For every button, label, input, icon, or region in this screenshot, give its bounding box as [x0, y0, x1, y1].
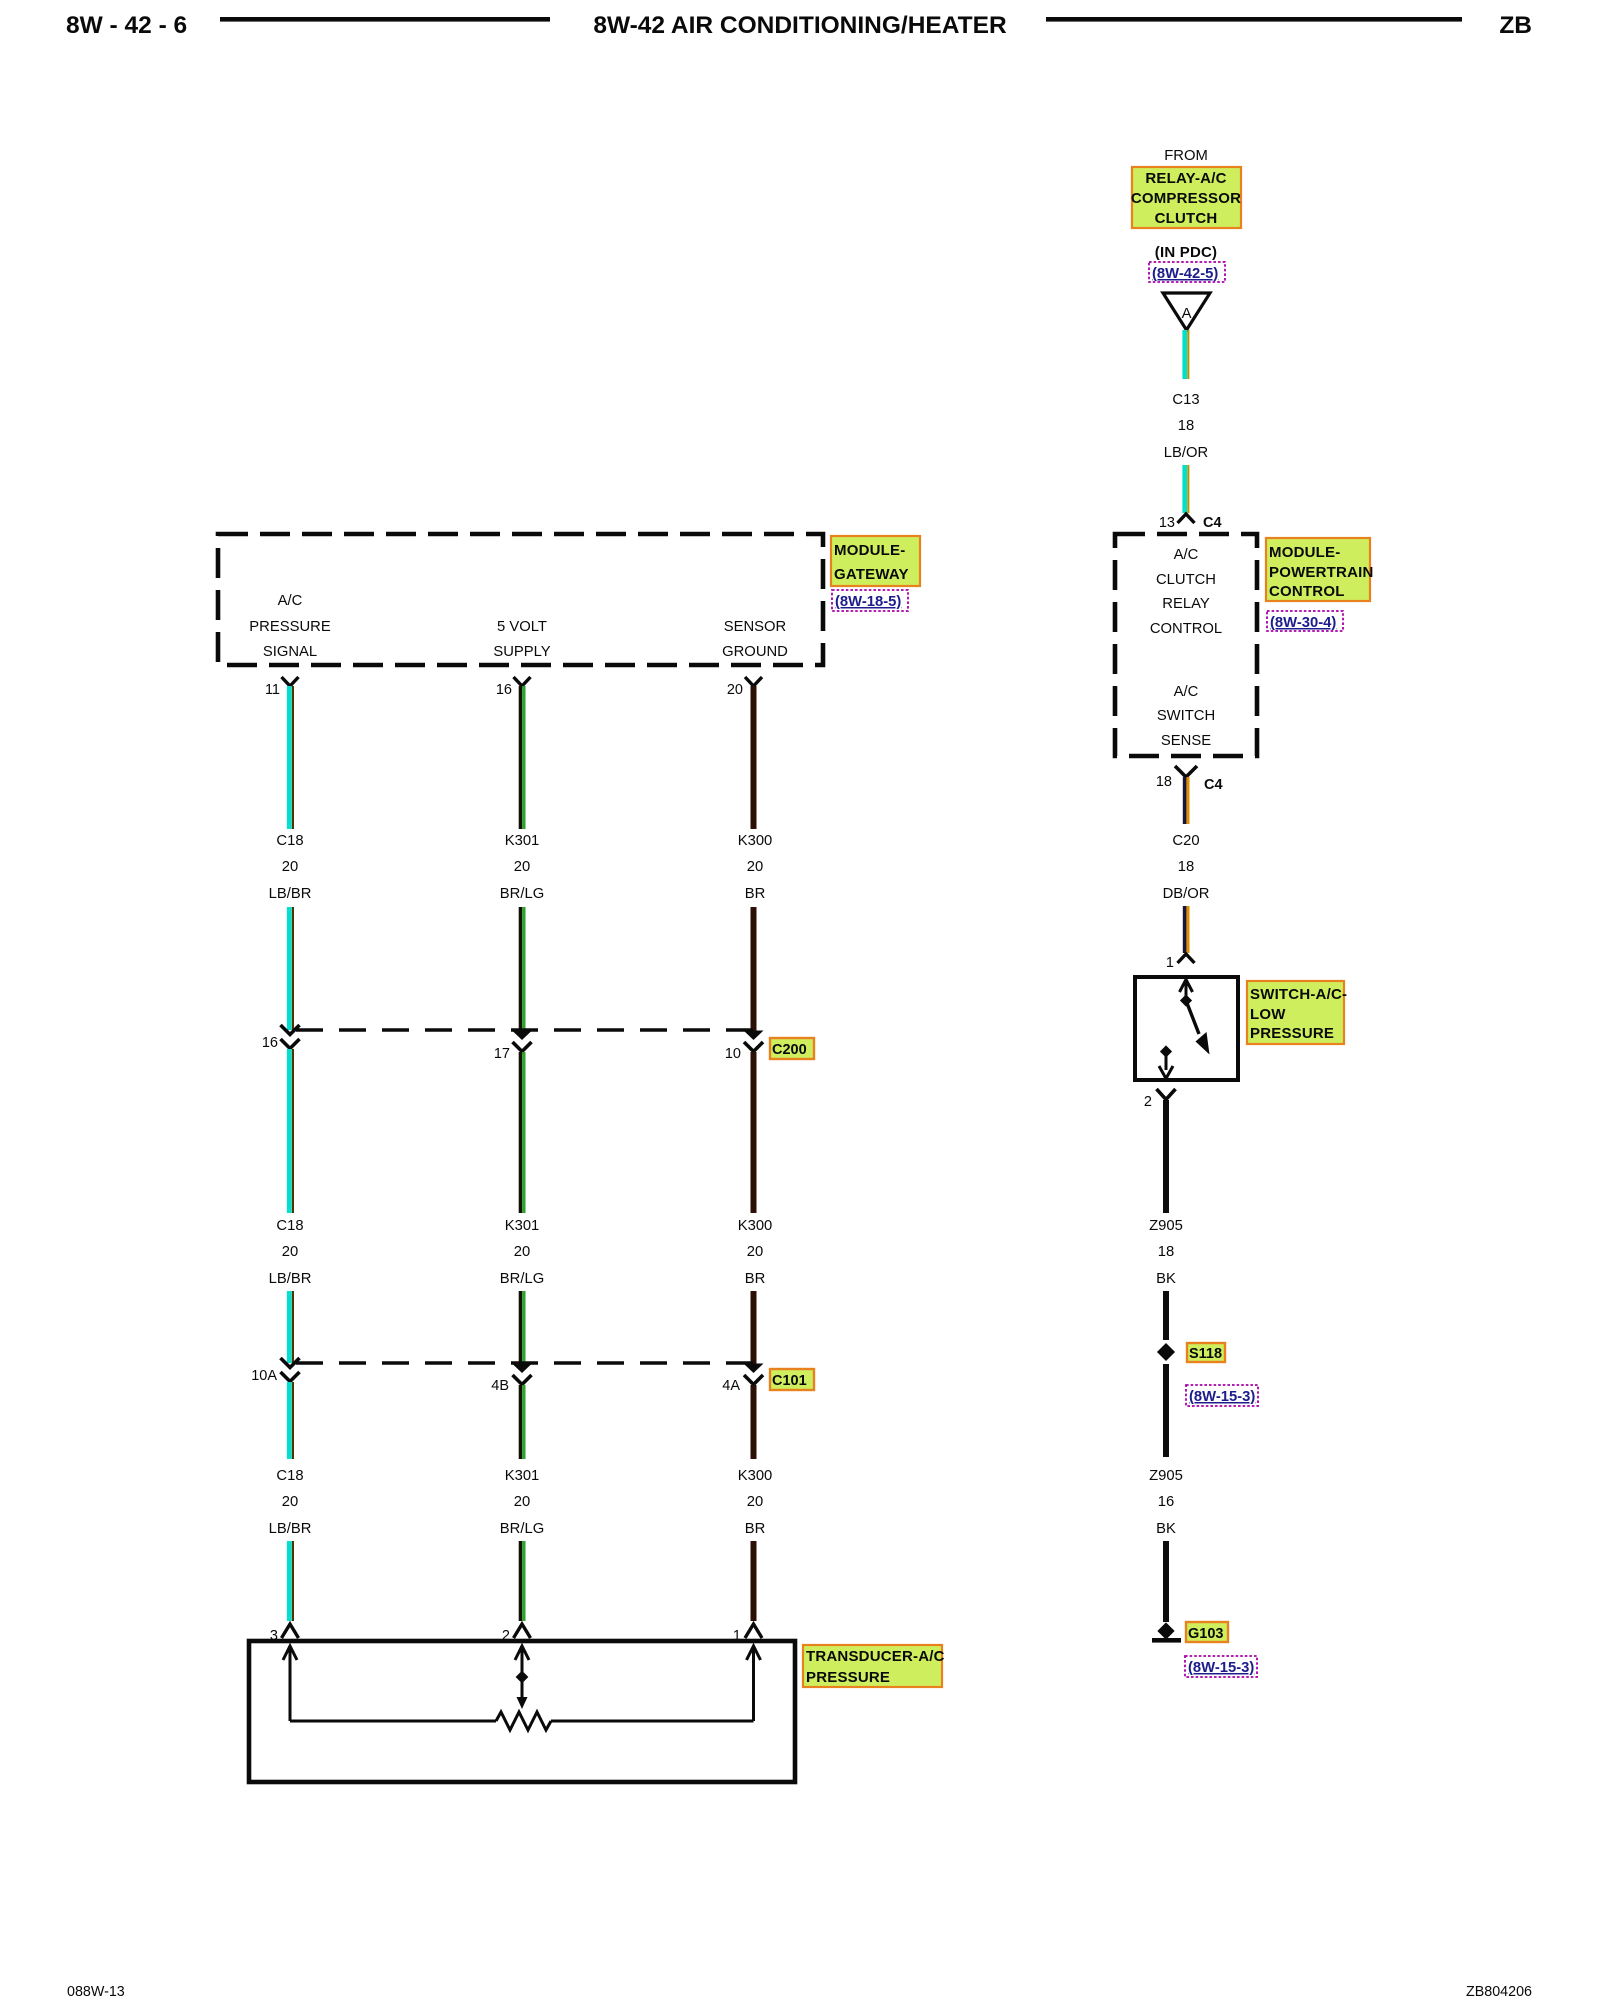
svg-text:A/C: A/C	[278, 593, 303, 609]
wire K300 20 BR segment 1	[738, 686, 773, 902]
wire C13 18 LB/OR segment 1	[1164, 330, 1208, 461]
C101 pin 4A chevrons	[722, 1364, 763, 1395]
component: SWITCH-A/C-LOW PRESSURE box	[1135, 977, 1238, 1080]
svg-text:RELAY-A/C: RELAY-A/C	[1145, 170, 1226, 187]
ground G103 symbol	[1152, 1622, 1181, 1642]
label S118 highlight	[1187, 1343, 1225, 1362]
svg-text:18: 18	[1156, 774, 1172, 790]
svg-text:LB/BR: LB/BR	[269, 1521, 312, 1537]
svg-text:11: 11	[265, 682, 280, 698]
svg-text:1: 1	[1166, 955, 1174, 971]
svg-text:SWITCH-A/C-: SWITCH-A/C-	[1250, 986, 1347, 1003]
wire BR/LG segment 6	[520, 1541, 523, 1621]
svg-text:20: 20	[282, 859, 298, 875]
svg-text:(8W-18-5): (8W-18-5)	[835, 594, 901, 610]
svg-text:A/C: A/C	[1174, 547, 1199, 563]
switch internal bottom contact arrow	[1159, 1045, 1173, 1078]
in-line connector C200 dashed bus	[296, 1028, 753, 1032]
svg-text:4B: 4B	[491, 1378, 509, 1394]
svg-text:K301: K301	[505, 833, 540, 849]
connector C4 pin 13	[1159, 514, 1222, 531]
svg-text:Z905: Z905	[1149, 1468, 1183, 1484]
module: MODULE-POWERTRAIN CONTROL dashed box	[1115, 534, 1257, 756]
svg-text:FROM: FROM	[1164, 148, 1208, 164]
splice S118	[1157, 1343, 1175, 1361]
svg-text:GATEWAY: GATEWAY	[834, 566, 909, 583]
svg-text:(8W-15-3): (8W-15-3)	[1188, 1660, 1254, 1676]
off-page connector A triangle	[1163, 293, 1210, 330]
C101 pin 4B chevrons	[491, 1364, 532, 1395]
wire LB/BR segment 3	[269, 1049, 312, 1287]
svg-text:DB/OR: DB/OR	[1163, 886, 1210, 902]
header	[66, 12, 1532, 39]
wire BR segment 6	[751, 1541, 757, 1621]
svg-text:20: 20	[514, 859, 530, 875]
svg-text:COMPRESSOR: COMPRESSOR	[1131, 190, 1241, 207]
svg-text:BR/LG: BR/LG	[500, 886, 544, 902]
wire K301 20 BR/LG segment 1	[500, 686, 544, 902]
svg-text:TRANSDUCER-A/C: TRANSDUCER-A/C	[806, 1648, 945, 1665]
svg-text:088W-13: 088W-13	[67, 1984, 125, 2000]
svg-text:A/C: A/C	[1174, 684, 1199, 700]
wire DB/OR segment 2	[1185, 906, 1188, 953]
svg-text:(8W-30-4): (8W-30-4)	[1270, 615, 1336, 631]
svg-text:C4: C4	[1203, 515, 1222, 531]
svg-text:16: 16	[262, 1035, 278, 1051]
svg-text:20: 20	[747, 1244, 763, 1260]
svg-text:2: 2	[1144, 1094, 1152, 1110]
switch blade	[1186, 1001, 1210, 1055]
svg-text:20: 20	[727, 682, 743, 698]
svg-text:16: 16	[1158, 1494, 1174, 1510]
svg-text:G103: G103	[1188, 1626, 1223, 1642]
component: TRANSDUCER-A/C PRESSURE box	[249, 1641, 795, 1782]
transducer pin 1 internal arrow	[747, 1646, 761, 1721]
C200 pin 17 chevrons	[494, 1031, 532, 1063]
label: SWITCH-A/C-LOW PRESSURE highlight	[1247, 981, 1347, 1044]
svg-text:MODULE-: MODULE-	[834, 542, 905, 559]
label: MODULE-GATEWAY highlight	[831, 536, 920, 586]
label: RELAY-A/C COMPRESSOR CLUTCH highlight	[1131, 167, 1241, 228]
svg-text:LB/OR: LB/OR	[1164, 445, 1208, 461]
svg-text:MODULE-: MODULE-	[1269, 544, 1340, 561]
svg-text:BK: BK	[1156, 1521, 1176, 1537]
svg-text:4A: 4A	[722, 1378, 740, 1394]
svg-text:8W - 42 - 6: 8W - 42 - 6	[66, 12, 187, 39]
svg-text:18: 18	[1178, 859, 1194, 875]
C200 pin 16 chevrons	[262, 1025, 300, 1051]
svg-text:C101: C101	[772, 1373, 807, 1389]
svg-text:5 VOLT: 5 VOLT	[497, 619, 547, 635]
svg-text:20: 20	[514, 1244, 530, 1260]
switch internal top contact arrow	[1180, 979, 1193, 1007]
pin 20 connector	[727, 677, 762, 698]
svg-text:13: 13	[1159, 515, 1175, 531]
svg-text:SENSOR: SENSOR	[724, 619, 787, 635]
pin 11 connector	[265, 677, 299, 698]
svg-text:C18: C18	[276, 1468, 303, 1484]
link (8W-18-5)	[832, 590, 908, 611]
svg-text:PRESSURE: PRESSURE	[249, 619, 331, 635]
svg-text:8W-42 AIR CONDITIONING/HEATER: 8W-42 AIR CONDITIONING/HEATER	[593, 12, 1007, 39]
wire LB/BR segment 2	[289, 907, 293, 1030]
svg-text:Z905: Z905	[1149, 1218, 1183, 1234]
svg-text:PRESSURE: PRESSURE	[1250, 1025, 1334, 1042]
switch pin 2 connector	[1144, 1089, 1176, 1110]
svg-text:SENSE: SENSE	[1161, 733, 1211, 749]
wire BR/LG segment 3	[500, 1052, 544, 1287]
svg-text:20: 20	[514, 1494, 530, 1510]
C200 pin 10 chevrons	[725, 1031, 764, 1063]
svg-text:RELAY: RELAY	[1162, 596, 1210, 612]
svg-text:K301: K301	[505, 1468, 540, 1484]
svg-text:SUPPLY: SUPPLY	[493, 644, 550, 660]
svg-text:LB/BR: LB/BR	[269, 1271, 312, 1287]
svg-text:C4: C4	[1204, 777, 1223, 793]
svg-text:18: 18	[1158, 1244, 1174, 1260]
svg-text:SWITCH: SWITCH	[1157, 708, 1215, 724]
wire BR segment 3	[738, 1052, 773, 1287]
svg-text:10A: 10A	[251, 1368, 277, 1384]
svg-text:20: 20	[747, 1494, 763, 1510]
wire BR segment 4	[751, 1291, 757, 1367]
transducer pin 2 connector	[502, 1624, 531, 1644]
pin 16 connector	[496, 677, 531, 698]
link (8W-42-5)	[1149, 262, 1225, 282]
svg-text:(IN PDC): (IN PDC)	[1155, 244, 1217, 261]
svg-text:C200: C200	[772, 1042, 807, 1058]
label G103 highlight	[1186, 1622, 1228, 1642]
transducer pin 2 internal arrow + wiper	[515, 1646, 529, 1709]
svg-text:K300: K300	[738, 1468, 773, 1484]
module: MODULE-GATEWAY dashed box	[218, 534, 823, 665]
resistor element inside transducer	[290, 1712, 754, 1730]
wire BR/LG segment 2	[520, 907, 523, 1034]
label: MODULE-POWERTRAIN CONTROL highlight	[1266, 538, 1374, 601]
svg-text:C20: C20	[1172, 833, 1199, 849]
label: TRANSDUCER-A/C PRESSURE highlight	[803, 1645, 945, 1687]
switch pin 1 connector	[1166, 954, 1195, 971]
svg-text:C18: C18	[276, 833, 303, 849]
label: FROM	[1164, 148, 1208, 164]
wire C18 20 LB/BR segment 1	[269, 686, 312, 902]
transducer pin 3 internal arrow	[283, 1646, 297, 1721]
wire BK segment 3	[1149, 1364, 1183, 1537]
svg-text:20: 20	[747, 859, 763, 875]
svg-text:CLUTCH: CLUTCH	[1156, 572, 1216, 588]
svg-text:ZB: ZB	[1499, 12, 1532, 39]
wire C20 18 DB/OR segment 1	[1163, 777, 1210, 902]
svg-text:K300: K300	[738, 833, 773, 849]
svg-text:SIGNAL: SIGNAL	[263, 644, 317, 660]
wire LB/BR segment 6	[289, 1541, 293, 1621]
svg-text:CLUTCH: CLUTCH	[1155, 210, 1218, 227]
label: (IN PDC)	[1155, 244, 1217, 261]
wire BK segment 4	[1163, 1541, 1169, 1622]
svg-text:K301: K301	[505, 1218, 540, 1234]
wire LB/BR segment 5	[269, 1382, 312, 1537]
wire LB/OR segment 2	[1185, 465, 1189, 513]
link (8W-30-4)	[1267, 611, 1343, 631]
link (8W-15-3) at S118	[1186, 1385, 1258, 1406]
svg-text:16: 16	[496, 682, 512, 698]
svg-text:C13: C13	[1172, 392, 1199, 408]
connector C4 pin 18	[1156, 766, 1223, 793]
svg-text:BR: BR	[745, 886, 766, 902]
svg-text:18: 18	[1178, 418, 1194, 434]
svg-text:10: 10	[725, 1046, 741, 1062]
svg-text:20: 20	[282, 1494, 298, 1510]
svg-text:PRESSURE: PRESSURE	[806, 1669, 890, 1686]
wire Z905 18 BK segment 1	[1149, 1100, 1183, 1287]
svg-text:17: 17	[494, 1046, 510, 1062]
svg-text:ZB804206: ZB804206	[1466, 1984, 1532, 2000]
svg-text:POWERTRAIN: POWERTRAIN	[1269, 564, 1374, 581]
link (8W-15-3) at G103	[1185, 1656, 1257, 1677]
transducer pin 1 connector	[733, 1624, 762, 1644]
label C101 highlight	[770, 1369, 814, 1390]
footer	[67, 1984, 1532, 2000]
svg-text:(8W-15-3): (8W-15-3)	[1189, 1389, 1255, 1405]
svg-text:BR: BR	[745, 1271, 766, 1287]
svg-text:GROUND: GROUND	[722, 644, 788, 660]
svg-text:LB/BR: LB/BR	[269, 886, 312, 902]
label C200 highlight	[770, 1038, 814, 1059]
svg-text:K300: K300	[738, 1218, 773, 1234]
transducer pin 3 connector	[270, 1624, 299, 1644]
wire BR/LG segment 4	[520, 1291, 523, 1367]
svg-text:CONTROL: CONTROL	[1150, 621, 1222, 637]
svg-text:C18: C18	[276, 1218, 303, 1234]
svg-text:A: A	[1182, 306, 1192, 322]
svg-text:BR/LG: BR/LG	[500, 1521, 544, 1537]
wire LB/BR segment 4	[289, 1291, 293, 1363]
svg-text:BK: BK	[1156, 1271, 1176, 1287]
svg-text:(8W-42-5): (8W-42-5)	[1152, 266, 1218, 282]
in-line connector C101 dashed bus	[296, 1361, 753, 1365]
svg-text:LOW: LOW	[1250, 1006, 1286, 1023]
svg-text:CONTROL: CONTROL	[1269, 583, 1345, 600]
wire BR segment 2	[751, 907, 757, 1034]
svg-text:BR: BR	[745, 1521, 766, 1537]
wire BR segment 5	[738, 1385, 773, 1537]
svg-text:BR/LG: BR/LG	[500, 1271, 544, 1287]
C101 pin 10A chevrons	[251, 1358, 299, 1384]
svg-text:S118: S118	[1189, 1346, 1222, 1362]
svg-text:20: 20	[282, 1244, 298, 1260]
wire BR/LG segment 5	[500, 1385, 544, 1537]
wire BK segment 2	[1163, 1291, 1169, 1340]
